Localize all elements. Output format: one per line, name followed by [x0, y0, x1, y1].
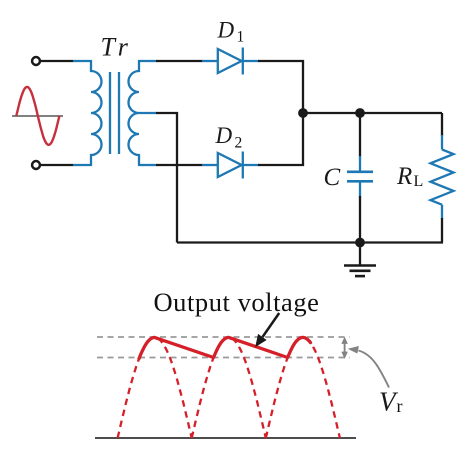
wire D2 cathode to node A — [258, 113, 303, 165]
wire D1 cathode to node A — [258, 61, 303, 113]
output voltage ripple (solid red) — [139, 337, 311, 358]
wire top terminal to primary — [41, 60, 74, 62]
transformer Tr secondary winding with center tap — [129, 61, 158, 165]
rectified half-sine pulses (dashed red) — [118, 337, 340, 438]
junction node C (capacitor bottom / ground) — [355, 238, 365, 248]
svg-text:1: 1 — [237, 29, 245, 46]
Vr ripple extent double arrow — [342, 337, 348, 358]
junction node B (capacitor top) — [355, 108, 365, 118]
input terminal bottom — [32, 161, 40, 169]
svg-text:R: R — [396, 163, 412, 190]
capacitor C bottom lead — [359, 196, 361, 243]
resistor RL bottom lead — [441, 218, 443, 243]
svg-text:C: C — [324, 164, 341, 191]
ground — [344, 243, 376, 277]
capacitor C — [347, 156, 373, 197]
Vr leader arrow — [359, 351, 390, 388]
resistor RL — [431, 135, 454, 219]
transformer Tr primary winding — [73, 61, 102, 165]
wire secondary bottom to D2 anode — [156, 164, 203, 166]
waveform baseline — [95, 437, 356, 439]
input terminal top — [32, 57, 40, 65]
svg-text:L: L — [414, 173, 424, 190]
AC source sine axis — [12, 115, 63, 117]
svg-text:D: D — [217, 18, 235, 43]
wire center tap down — [156, 113, 177, 243]
AC source sine wave — [16, 87, 59, 145]
svg-text:r: r — [118, 33, 129, 62]
wire node A to RL branch top rail — [303, 112, 442, 114]
svg-text:T: T — [101, 33, 117, 62]
junction node A — [298, 108, 308, 118]
capacitor C top lead — [359, 113, 361, 157]
wire bottom terminal to primary — [41, 164, 74, 166]
transformer core — [109, 72, 111, 154]
wire secondary top to D1 anode — [156, 60, 203, 62]
resistor RL top lead — [441, 113, 443, 136]
svg-text:2: 2 — [235, 135, 243, 152]
wire bottom rail — [177, 241, 443, 243]
diode D1 — [202, 48, 259, 75]
svg-text:D: D — [215, 123, 233, 148]
diode D2 — [202, 152, 259, 179]
waveform dashed level line top — [97, 336, 350, 338]
svg-text:Output voltage: Output voltage — [154, 287, 320, 317]
annotation arrow to ripple — [263, 313, 280, 337]
waveform dashed level line bottom — [97, 357, 350, 359]
svg-text:r: r — [397, 396, 403, 416]
